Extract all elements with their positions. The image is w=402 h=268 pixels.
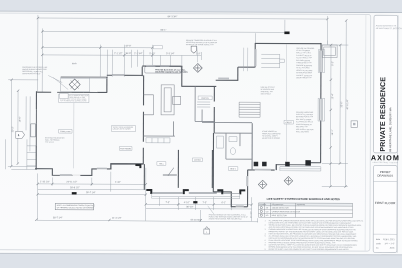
- left wing room label box: [59, 129, 72, 133]
- svg-text:36'-10": 36'-10": [186, 207, 193, 209]
- detail tag right: [351, 121, 357, 127]
- svg-text:5'-10": 5'-10": [149, 53, 155, 55]
- dim left column inner: [17, 91, 19, 164]
- permit drawings label: [377, 170, 393, 178]
- mudroom lockers: [146, 138, 170, 143]
- svg-text:7'-3": 7'-3": [202, 202, 207, 204]
- window frames great room east: [318, 50, 325, 121]
- svg-text:SYMBOL: SYMBOL: [259, 204, 266, 206]
- svg-text:38'-7 1/4": 38'-7 1/4": [53, 217, 63, 219]
- project address rotated: [388, 107, 392, 152]
- svg-text:DOOR THRESH TYP: DOOR THRESH TYP: [296, 77, 311, 79]
- room label hall: [157, 162, 166, 166]
- svg-text:LIFE SAFETY SYSTEM FIXTURE SCH: LIFE SAFETY SYSTEM FIXTURE SCHEDULE AND …: [267, 197, 340, 201]
- wall great room east: [320, 43, 322, 163]
- svg-text:30'-2": 30'-2": [12, 126, 14, 132]
- window tag west: [60, 93, 69, 98]
- great room west window mullion lines: [244, 48, 248, 72]
- window marks kitchen north: [112, 66, 169, 76]
- wall center west (mud hall): [142, 75, 144, 164]
- wall kitchen north: [107, 66, 182, 76]
- issue fields: [376, 238, 395, 249]
- svg-text:HEAT DETECTOR: HEAT DETECTOR: [272, 214, 288, 217]
- table rows text: [266, 207, 301, 217]
- svg-text:42'-0": 42'-0": [125, 46, 131, 48]
- chimney bump top right: [322, 45, 337, 58]
- porch posts and south wall: [144, 150, 212, 190]
- svg-text:FOYER: FOYER: [194, 160, 201, 162]
- svg-text:85 HERITAGE LANE, DUXBURY MA: 85 HERITAGE LANE, DUXBURY MA: [388, 107, 392, 152]
- svg-text:5'-3 1/4": 5'-3 1/4": [166, 53, 175, 55]
- room label bed1: [228, 167, 238, 171]
- diamond symbol kitchen top: [193, 64, 202, 73]
- svg-text:SEE STRUCT.: SEE STRUCT.: [261, 93, 272, 95]
- svg-text:28'-8 1/2": 28'-8 1/2": [70, 187, 80, 189]
- svg-text:TO CEILING, VERIFY: TO CEILING, VERIFY: [262, 135, 279, 137]
- svg-text:PRIVATE RESIDENCE: PRIVATE RESIDENCE: [379, 77, 387, 152]
- svg-text:1'-10 1/2": 1'-10 1/2": [40, 181, 50, 183]
- svg-text:REMARKS: REMARKS: [297, 203, 306, 206]
- dim line row 42ft: [42, 46, 152, 48]
- porch south rail: [152, 192, 240, 193]
- svg-text:11'-4 1/4": 11'-4 1/4": [112, 218, 122, 220]
- room label foyer: [192, 158, 202, 162]
- svg-text:14'-1": 14'-1": [332, 129, 334, 135]
- table row symbols: [260, 207, 262, 217]
- svg-text:PROVIDE BLOCKING: PROVIDE BLOCKING: [296, 65, 313, 67]
- svg-text:FAMILY RM: FAMILY RM: [60, 130, 70, 133]
- leader note foundation: [45, 136, 65, 143]
- window marks great room west: [254, 49, 256, 66]
- svg-text:A101: A101: [390, 246, 396, 249]
- svg-text:DRAWINGS: DRAWINGS: [377, 174, 393, 178]
- svg-text:24'-11 1/2": 24'-11 1/2": [66, 182, 77, 184]
- architect contact tiny text: [376, 24, 402, 30]
- svg-text:18'-6": 18'-6": [19, 116, 21, 122]
- svg-text:1/4" = 1'-0": 1/4" = 1'-0": [384, 243, 394, 245]
- svg-text:1'-10": 1'-10": [115, 182, 121, 184]
- svg-text:MUD ROOM: MUD ROOM: [120, 148, 131, 150]
- svg-text:PANTRY: PANTRY: [201, 97, 209, 100]
- diamond symbols terrace: [258, 176, 292, 189]
- note top right: [186, 39, 218, 46]
- svg-text:CONDITIONS IN FIELD: CONDITIONS IN FIELD: [22, 73, 41, 75]
- svg-text:66'-1": 66'-1": [160, 30, 166, 32]
- svg-text:SMOKE DETECTOR: SMOKE DETECTOR: [272, 207, 290, 209]
- svg-text:2'-1 3/4": 2'-1 3/4": [134, 53, 143, 55]
- wall deck west edge: [61, 77, 108, 93]
- dim bottom left rows: [38, 183, 146, 185]
- svg-text:NEW 6x6 PT POST: NEW 6x6 PT POST: [261, 87, 275, 89]
- dim bottom center rows: [146, 203, 252, 205]
- dim labels: [40, 16, 227, 222]
- svg-text:OF FRAMING UNLESS NOTED OTHERW: OF FRAMING UNLESS NOTED OTHERWISE: [57, 206, 95, 209]
- dim tick marks: [10, 17, 348, 222]
- great room note southwest: [262, 130, 281, 140]
- bath fixtures: [216, 136, 237, 154]
- svg-text:FIRST FLOOR: FIRST FLOOR: [375, 201, 396, 205]
- leader note top left: [22, 67, 48, 75]
- svg-text:scale: scale: [376, 243, 382, 245]
- skylight diamond on deck: [69, 79, 80, 90]
- wall master wing south: [213, 164, 276, 208]
- door tag pentagon left: [16, 131, 25, 138]
- dim bottom outermost: [36, 220, 257, 222]
- svg-text:5/8" GWB CEILING: 5/8" GWB CEILING: [296, 60, 311, 62]
- great room centerline: [285, 44, 287, 161]
- note master wing: [209, 213, 249, 220]
- svg-text:5'-2": 5'-2": [196, 53, 201, 55]
- interior master bath block: [202, 123, 252, 171]
- dim bottom long row: [38, 193, 146, 195]
- great room leader note west: [261, 87, 275, 96]
- table grid: [258, 203, 352, 218]
- svg-text:THROUGHOUT, TYP.: THROUGHOUT, TYP.: [296, 62, 312, 64]
- room label mudroom: [119, 147, 132, 151]
- svg-text:7'-3": 7'-3": [165, 202, 170, 204]
- black chimney marker: [284, 32, 289, 35]
- dim line top overall: [38, 18, 327, 19]
- AXIOM logo: [371, 153, 400, 164]
- wall great room south with posts: [276, 163, 321, 170]
- dim line row 36ft: [42, 54, 201, 57]
- deck label: [72, 63, 78, 65]
- svg-text:TYP. U.N.O.: TYP. U.N.O.: [45, 142, 55, 144]
- svg-text:46 WALTHAM ST, BOSTON MA 02118: 46 WALTHAM ST, BOSTON MA 02118: [376, 27, 402, 30]
- great room builtin lines: [261, 54, 284, 68]
- svg-text:CARBON MONOXIDE DETECTOR: CARBON MONOXIDE DETECTOR: [272, 210, 301, 213]
- svg-text:47'-9 1/4": 47'-9 1/4": [347, 100, 349, 110]
- svg-text:4'-10": 4'-10": [184, 202, 190, 204]
- interior kitchen counters: [143, 95, 180, 115]
- dim right column 3: [345, 21, 348, 187]
- svg-text:SELECTION W/ OWNER: SELECTION W/ OWNER: [262, 138, 281, 140]
- wall master wing west: [213, 86, 214, 192]
- dim labels rotated left/right: [12, 60, 349, 136]
- svg-text:AXIOM ARCHITECTS: AXIOM ARCHITECTS: [376, 24, 397, 27]
- svg-text:6'-1": 6'-1": [221, 202, 226, 204]
- svg-text:84'-3 3/4": 84'-3 3/4": [168, 16, 178, 18]
- deck outline: [61, 77, 90, 92]
- terrace steps great room south: [280, 167, 321, 171]
- svg-text:FEB 5, 2021: FEB 5, 2021: [383, 239, 395, 241]
- great room note column upper: [296, 47, 315, 79]
- room label pantry box top: [153, 45, 162, 48]
- table title: [267, 197, 340, 201]
- svg-text:44'-10 3/4": 44'-10 3/4": [190, 220, 201, 222]
- svg-text:AXIOM: AXIOM: [371, 153, 400, 162]
- project name rotated: [379, 77, 387, 152]
- svg-text:9'-2": 9'-2": [332, 61, 334, 66]
- svg-text:39'-7 1/4": 39'-7 1/4": [86, 192, 96, 194]
- svg-text:GREAT: GREAT: [285, 121, 292, 124]
- sheet title FIRST FLOOR: [375, 201, 396, 205]
- note column great room lower: [296, 111, 314, 133]
- svg-text:12'-4": 12'-4": [332, 93, 334, 99]
- svg-text:12'-2 1/2": 12'-2 1/2": [250, 211, 252, 219]
- north arrow solid mark center: [193, 201, 197, 203]
- north arrow solid mark left: [72, 192, 77, 194]
- svg-text:32'-6": 32'-6": [341, 101, 343, 107]
- svg-text:WITHIN 24" OF DOOR SWING, TYP.: WITHIN 24" OF DOOR SWING, TYP.: [186, 44, 215, 46]
- rotated tiny dims left of table: [250, 211, 252, 219]
- left wing centerline: [73, 103, 75, 168]
- svg-text:no.: no.: [376, 247, 379, 249]
- door tag pentagon bottom: [204, 227, 210, 234]
- svg-text:GROUPS WITH OWNER: GROUPS WITH OWNER: [113, 128, 132, 130]
- window marks master south: [236, 170, 271, 207]
- note kitchen: [155, 68, 188, 73]
- dim left column outer: [10, 80, 12, 166]
- porch steps: [152, 193, 240, 198]
- title block lower box: [373, 165, 397, 252]
- note box mudroom wing: [112, 125, 136, 131]
- svg-text:DESCRIPTION: DESCRIPTION: [272, 204, 284, 206]
- wall left wing south stepped: [35, 163, 143, 175]
- svg-text:36'-0": 36'-0": [125, 53, 131, 55]
- svg-text:DBL JOISTS UNDER: DBL JOISTS UNDER: [296, 119, 312, 121]
- interior stair treads: [239, 102, 260, 117]
- wall kitchen east jog: [182, 66, 255, 87]
- pantry label: [201, 97, 209, 100]
- wall great room north: [255, 43, 322, 67]
- svg-text:REFER TO SHEET A-002 FOR COMPL: REFER TO SHEET A-002 FOR COMPLETE LIFE S…: [269, 248, 350, 251]
- dim line top second: [42, 30, 284, 33]
- note box dimensions: [55, 203, 96, 210]
- wall mudroom south: [111, 164, 144, 170]
- entry door marks: [163, 168, 177, 176]
- wall left wing west: [31, 91, 37, 170]
- tag pentagon kitchen top: [191, 46, 196, 53]
- svg-text:BED 1: BED 1: [230, 168, 235, 170]
- title block upper box: [374, 15, 398, 153]
- table header text: [259, 203, 306, 206]
- interior mudroom partition: [143, 121, 175, 136]
- window marks left wing south: [60, 169, 107, 176]
- window marks great room east: [319, 50, 322, 120]
- dim right column 2: [339, 45, 341, 163]
- svg-text:HALL: HALL: [159, 162, 164, 165]
- dim right column 1: [330, 45, 333, 186]
- interior pantry walls: [195, 86, 214, 121]
- svg-text:7'-1 1/2": 7'-1 1/2": [114, 53, 123, 55]
- kitchen counter outline: [145, 67, 181, 74]
- wall left wing top: [37, 91, 107, 93]
- life safety notes list: [265, 219, 364, 251]
- great room label box: [284, 120, 293, 124]
- note box deck: [59, 94, 90, 103]
- interior kitchen island: [161, 85, 174, 115]
- roof line diagonal top left: [53, 77, 68, 89]
